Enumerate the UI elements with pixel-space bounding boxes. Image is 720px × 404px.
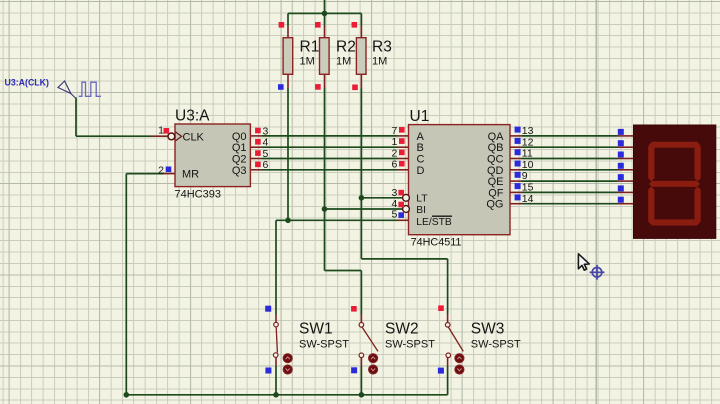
svg-text:MR: MR (182, 169, 199, 181)
svg-text:12: 12 (522, 136, 534, 148)
wire clock vertical (75, 98, 77, 137)
wire LE corner to SW1 (275, 220, 277, 314)
pin U1 QB (510, 146, 522, 148)
pin display a (618, 135, 634, 137)
state display e (618, 174, 624, 180)
svg-text:SW1: SW1 (299, 321, 333, 338)
state U1 pin14 (515, 194, 521, 200)
wire Q3 to D (262, 169, 398, 171)
state SW3 top (438, 305, 444, 311)
svg-text:B: B (417, 142, 424, 154)
pin U1 QC (510, 158, 522, 160)
state U1 pin7 (399, 127, 405, 133)
pin R1 top (287, 26, 289, 38)
wire MR horizontal (126, 173, 164, 175)
pin U3A CLK (152, 135, 168, 137)
state R2 top (315, 22, 321, 28)
switch SW1 (273, 321, 349, 358)
wire QE (522, 180, 618, 182)
pin R2 bottom (324, 74, 326, 88)
segment c (695, 187, 701, 225)
pin U1 QE (510, 180, 522, 182)
wire QG (522, 203, 618, 205)
pin SW3 bottom (447, 358, 449, 367)
pin R1 bottom (287, 74, 289, 88)
state R2 bottom (315, 84, 321, 90)
bubble U1 BI (403, 206, 410, 213)
state U1 pin9 (515, 172, 521, 178)
state R1 top (279, 22, 285, 28)
wire R3 bottom to LT net (360, 88, 362, 259)
svg-text:Q3: Q3 (232, 165, 247, 177)
pin U1 QD (510, 169, 522, 171)
wire QB (522, 146, 618, 148)
state U1 pin11 (515, 149, 521, 155)
pin display b (618, 146, 634, 148)
state U1 pin6 (399, 161, 405, 167)
wire clock to CLK pin (76, 135, 152, 137)
state display g (618, 197, 624, 203)
svg-text:13: 13 (522, 125, 534, 137)
svg-text:1: 1 (391, 136, 397, 148)
pin SW1 bottom (275, 357, 277, 366)
svg-text:LE/STB: LE/STB (416, 217, 452, 228)
wire LE/STB pin5 (276, 219, 398, 221)
wire BI jog to SW2 (325, 270, 362, 272)
major grid line vertical (595, 0, 597, 404)
wire bottom bus (126, 394, 447, 396)
resistor R3 (356, 38, 366, 75)
svg-text:R2: R2 (336, 39, 356, 56)
svg-text:14: 14 (522, 193, 534, 205)
state U3A pin2 (166, 167, 172, 173)
wire R2 top (324, 13, 326, 26)
junction node bus left (124, 392, 130, 398)
svg-text:Q0: Q0 (232, 131, 247, 143)
mouse cursor (578, 254, 589, 270)
pin R3 top (360, 26, 362, 38)
segment e (648, 187, 654, 225)
pin SW3 top (447, 314, 449, 323)
svg-text:4: 4 (263, 137, 269, 149)
segment a (649, 142, 700, 148)
state U3A pin4 (255, 139, 261, 145)
wire SW3 bottom (447, 366, 449, 395)
state U1 pin10 (515, 161, 521, 167)
pin R2 top (324, 26, 326, 38)
wire R1 bottom to LE/STB net (287, 88, 289, 220)
state U3A pin3 (255, 128, 261, 134)
pin U3A Q1 (250, 146, 262, 148)
svg-text:SW2: SW2 (385, 321, 419, 338)
junction node R3/LT (359, 195, 365, 201)
svg-text:QB: QB (488, 142, 504, 154)
svg-text:QG: QG (486, 199, 503, 211)
wire LT jog to SW3 (361, 258, 447, 260)
svg-text:7: 7 (391, 125, 397, 137)
state R3 top (352, 22, 358, 28)
svg-text:9: 9 (522, 170, 528, 182)
wire QF (522, 191, 618, 193)
switch SW2 toggle buttons (368, 354, 377, 375)
wire QD (522, 169, 618, 171)
switch SW3 (445, 321, 521, 358)
svg-text:6: 6 (391, 159, 397, 171)
svg-text:SW3: SW3 (471, 321, 505, 338)
segment d (649, 219, 700, 225)
svg-text:5: 5 (263, 148, 269, 160)
svg-text:C: C (417, 154, 425, 166)
pin U1 QF (510, 191, 522, 193)
svg-text:U3:A: U3:A (175, 108, 210, 125)
state U1 pin3 (398, 190, 404, 196)
pin U1 QA (510, 135, 522, 137)
pin SW2 top (360, 314, 362, 323)
switch SW1 toggle buttons (283, 354, 292, 375)
pin display d (618, 169, 634, 171)
switch SW3 toggle buttons (455, 354, 464, 375)
state U1 pin1 (399, 138, 405, 144)
wire MR vertical (125, 174, 127, 395)
pin U3A MR (164, 173, 175, 175)
clock bubble U3:A pin1 (168, 133, 175, 140)
wire BI pin4 (325, 208, 404, 210)
segment g (649, 181, 700, 187)
pin R3 bottom (360, 74, 362, 88)
clock generator symbol (5, 77, 102, 98)
svg-text:3: 3 (263, 125, 269, 137)
svg-text:2: 2 (158, 164, 164, 176)
crosshair cursor (590, 265, 605, 280)
svg-text:QF: QF (488, 187, 504, 199)
wire top rail (76, 0, 618, 395)
pin display e (618, 180, 634, 182)
pin stubs maroon (152, 26, 634, 366)
svg-text:LT: LT (416, 194, 428, 205)
state SW2 bottom (351, 367, 357, 373)
svg-text:2: 2 (391, 147, 397, 159)
state U1 pin5 (398, 212, 404, 218)
wire R3 top (360, 13, 362, 26)
svg-text:15: 15 (522, 182, 534, 194)
svg-text:1M: 1M (372, 56, 387, 68)
svg-text:1M: 1M (336, 56, 351, 68)
svg-text:R1: R1 (300, 39, 320, 56)
pin display f (618, 191, 634, 193)
state U3A pin5 (255, 150, 261, 156)
wire SW1 bottom (275, 366, 277, 395)
svg-text:CLK: CLK (183, 131, 205, 143)
pin U1 C (398, 158, 409, 160)
svg-text:74HC4511: 74HC4511 (411, 236, 462, 248)
state display c (618, 152, 624, 158)
wire QA (522, 135, 618, 137)
wire Q0 to A (262, 135, 398, 137)
state display a (618, 129, 624, 135)
pin U3A Q3 (250, 169, 262, 171)
wire SW2 bottom (360, 366, 362, 395)
svg-text:U3:A(CLK): U3:A(CLK) (5, 77, 50, 87)
wire supply feed (324, 0, 326, 13)
wire R1 top (287, 13, 289, 26)
svg-text:11: 11 (522, 148, 533, 160)
op U1 74HC4511 body (409, 125, 511, 235)
segment f (648, 143, 654, 181)
state SW1 bottom (265, 368, 271, 374)
svg-text:QA: QA (488, 131, 505, 143)
state U1 pin15 (515, 183, 521, 189)
junction node R1/LE (285, 218, 291, 224)
state SW3 bottom (438, 368, 444, 374)
svg-text:SW-SPST: SW-SPST (385, 339, 435, 351)
svg-text:Q1: Q1 (232, 142, 247, 154)
resistor R2 (320, 38, 330, 75)
wire R2 bottom to BI net (324, 88, 326, 271)
switch SW2 (359, 321, 435, 358)
svg-text:QD: QD (487, 165, 504, 177)
svg-text:U1: U1 (410, 108, 430, 125)
svg-text:5: 5 (391, 209, 397, 221)
svg-text:Q2: Q2 (232, 154, 247, 166)
op U3:A 74HC393 body (175, 124, 250, 187)
svg-text:1: 1 (158, 124, 164, 136)
state U1 pin2 (399, 150, 405, 156)
pin SW1 top (275, 314, 277, 322)
wire LT pin3 (361, 197, 403, 199)
state R1 bottom (278, 84, 284, 90)
logic state squares blue (166, 84, 624, 373)
pin display g (618, 203, 634, 205)
pin display c (618, 158, 634, 160)
state U1 pin4 (398, 202, 404, 208)
pin U1 D (398, 169, 409, 171)
svg-text:6: 6 (263, 159, 269, 171)
clock chevron (175, 132, 181, 141)
svg-text:A: A (417, 131, 425, 143)
state display d (618, 163, 624, 169)
state U3A pin6 (255, 162, 261, 168)
state U3A pin1 (164, 128, 170, 134)
svg-text:QE: QE (488, 176, 504, 188)
pin U3A Q0 (250, 135, 262, 137)
state R3 bottom (352, 85, 358, 91)
resistor R1 (283, 38, 293, 75)
junction node supply rail (322, 11, 328, 17)
7-segment display body (634, 125, 716, 238)
svg-text:BI: BI (416, 205, 426, 216)
pin SW2 bottom (360, 358, 362, 367)
state SW1 top (265, 306, 271, 312)
pin U1 LE (398, 219, 409, 221)
svg-text:SW-SPST: SW-SPST (471, 339, 521, 351)
pin U1 B (398, 146, 409, 148)
svg-text:QC: QC (487, 154, 504, 166)
junction node bus SW1 (273, 392, 279, 398)
junction node bus SW2 (359, 392, 365, 398)
bubble U1 LT (403, 194, 410, 201)
logic state squares red (164, 22, 444, 312)
svg-text:SW-SPST: SW-SPST (299, 339, 349, 351)
wire QC (522, 158, 618, 160)
wire Q2 to C (262, 158, 398, 160)
svg-text:10: 10 (522, 159, 534, 171)
state U1 pin12 (515, 138, 521, 144)
svg-text:1M: 1M (300, 56, 315, 68)
junction node R2/BI (322, 206, 328, 212)
pin U3A Q2 (250, 158, 262, 160)
state display b (618, 140, 624, 146)
svg-text:R3: R3 (372, 39, 392, 56)
wire Q1 to B (262, 146, 398, 148)
segment b (695, 143, 701, 181)
state SW2 top (351, 306, 357, 312)
state display f (618, 185, 624, 191)
svg-text:D: D (417, 165, 425, 177)
pin U1 QG (510, 203, 522, 205)
state U1 pin13 (515, 127, 521, 133)
pin U1 A (398, 135, 409, 137)
svg-text:74HC393: 74HC393 (175, 189, 221, 201)
